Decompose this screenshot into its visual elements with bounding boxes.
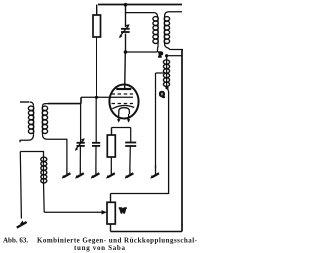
wire cathode bar	[112, 127, 131, 129]
wire C3 branch	[130, 128, 132, 143]
svg-text:Abb. 63.: Abb. 63.	[3, 237, 28, 245]
ground (C3)	[129, 168, 131, 174]
inductor L2 (coupling coil)	[43, 157, 45, 182]
earth arrow	[20, 221, 24, 225]
node A (junction top rail / anode branch)	[124, 3, 128, 7]
resistor R2 (cathode)	[107, 135, 115, 157]
wire earth lead (left)	[20, 152, 21, 219]
wire right rail	[181, 50, 183, 232]
node Q	[165, 86, 168, 89]
wire P to right rail	[167, 55, 182, 57]
wire T1 secondary bottom to ground branch	[43, 135, 67, 168]
wire primary bottom	[126, 44, 159, 53]
wire anode lead into tube	[124, 52, 127, 89]
transformer T2 primary coil	[157, 17, 159, 44]
heater leg right	[128, 114, 130, 120]
transformer T1 primary coil	[30, 102, 34, 106]
capacitor C4 (on resistor line)	[95, 97, 97, 142]
heater dome	[119, 108, 130, 114]
wire grid to T1 secondary	[48, 103, 81, 105]
cathode arc	[112, 105, 134, 108]
ground (C2 line)	[79, 168, 81, 174]
svg-text:tung von Saba: tung von Saba	[74, 244, 126, 252]
capacitor C1 (trimmer across primary)	[121, 28, 130, 30]
ground (C4 line)	[95, 168, 97, 174]
resistor R1 (anode/leak resistor)	[96, 5, 98, 16]
node B (junction anode / primary bottom)	[124, 50, 128, 54]
heater leg left	[118, 114, 120, 120]
svg-text:W: W	[119, 207, 126, 215]
wire top B+ rail	[98, 4, 182, 6]
grid (dashed) upper	[112, 93, 134, 95]
ground (cathode resistor)	[110, 168, 112, 174]
transformer T1 secondary coil	[43, 104, 49, 106]
potentiometer W	[110, 194, 112, 203]
wire Q down to W top	[111, 88, 169, 194]
wire grid jog	[80, 97, 82, 103]
ground (tap branch)	[155, 165, 157, 174]
wire coil tap to ground branch	[156, 72, 165, 74]
node grid/resistor junction	[95, 96, 98, 99]
grid (dashed) lower	[112, 103, 134, 105]
capacitor C2 (trimmer, grid line)	[77, 142, 85, 144]
transformer T2 secondary coil	[164, 17, 166, 44]
wire wiper feed	[44, 211, 103, 213]
svg-text:Q: Q	[159, 90, 165, 98]
inductor L3 (feedback coil P-Q)	[166, 56, 168, 60]
wire anode branch lower	[125, 34, 127, 53]
grid lead (solid)	[81, 96, 133, 98]
wire primary top to node	[126, 13, 158, 17]
tube V1 envelope	[109, 85, 138, 119]
wire secondary bottom to right rail	[165, 44, 184, 50]
antenna stub wire	[20, 101, 29, 103]
wire L2 bottom to wiper	[43, 182, 46, 212]
wire W bottom to right rail	[111, 231, 183, 233]
wire L2 top corner	[20, 152, 43, 158]
anode plate bar	[116, 88, 131, 90]
wire anode branch upper	[125, 5, 127, 28]
wire C2 branch	[80, 104, 82, 143]
capacitor C3 (cathode bypass)	[125, 142, 136, 144]
ground (T1 secondary)	[66, 168, 68, 174]
svg-text:P: P	[159, 51, 164, 59]
wire secondary top stub	[165, 12, 183, 17]
